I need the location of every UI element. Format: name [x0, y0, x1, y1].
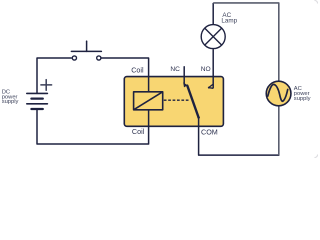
- sine wave inside AC source: [268, 84, 288, 101]
- wire: lamp top to AC top rail: [212, 3, 214, 25]
- label: AC Lamp: [221, 12, 237, 24]
- wire: battery negative to coil bottom (DC loop bottom): [37, 109, 149, 144]
- wire: AC right rail lower (gray): [278, 106, 280, 155]
- wire: battery positive up to switch (DC loop left side): [37, 58, 71, 93]
- wire: coil bottom lead inside box: [148, 110, 150, 127]
- svg-text:supply: supply: [294, 96, 311, 102]
- dashed actuator link: [164, 99, 190, 101]
- wire: coil top lead inside box: [148, 77, 150, 92]
- corner artifact top-right: [315, 1, 318, 4]
- wire: COM lead through box bottom: [198, 118, 200, 127]
- plus sign of battery: [41, 80, 52, 91]
- NC terminal stub: [183, 67, 185, 84]
- battery BT1 (DC power supply): [27, 93, 48, 109]
- relay body (yellow box): [124, 77, 223, 127]
- lamp L1 (circle with X): [201, 25, 225, 49]
- label: DC power supply: [2, 89, 19, 105]
- corner artifact bottom-right: [315, 155, 318, 158]
- NO terminal stub: [212, 77, 214, 89]
- label: AC power supply: [294, 86, 311, 102]
- relay coil K1 (rectangle with diagonal): [134, 92, 163, 110]
- armature pivot: [197, 116, 199, 118]
- relay armature lever (COM to NC): [187, 86, 198, 118]
- svg-text:supply: supply: [2, 99, 19, 105]
- svg-text:COM: COM: [201, 127, 218, 136]
- svg-text:Coil: Coil: [132, 127, 145, 136]
- wire: switch to coil top: [101, 58, 149, 92]
- svg-text:NO: NO: [201, 66, 211, 73]
- NC contact seat (filled): [183, 82, 187, 87]
- AC source G1 (circle with sine): [266, 81, 291, 106]
- svg-text:NC: NC: [170, 66, 180, 73]
- wire: AC top rail (gray): [213, 3, 279, 81]
- svg-text:Lamp: Lamp: [221, 17, 237, 24]
- wire: NO up to lamp: [212, 49, 214, 77]
- pushbutton switch S1: [71, 41, 101, 60]
- wire: COM down and right to AC supply (bottom): [199, 126, 279, 155]
- svg-text:Coil: Coil: [131, 65, 144, 74]
- NO contact seat (open triangle): [209, 84, 214, 88]
